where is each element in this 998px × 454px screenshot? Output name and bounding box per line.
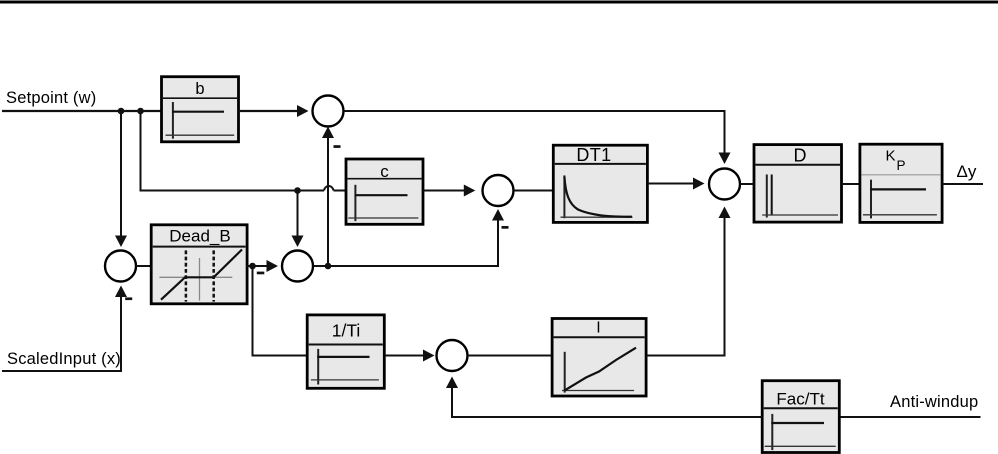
wire: Dead_B branch down to 1/Ti: [253, 266, 308, 356]
svg-text:b: b: [195, 80, 204, 98]
wire: scaled input up to S3 minus input: [2, 286, 132, 372]
top border: [0, 1, 998, 4]
wire: S2 output to DT1: [514, 190, 554, 192]
wire: S3 output to Dead_B: [136, 265, 151, 267]
wire: setpoint input: [2, 110, 163, 112]
svg-text:Setpoint (w): Setpoint (w): [6, 89, 96, 107]
summing junction S5: [437, 340, 468, 371]
summing junction S2: [483, 175, 514, 206]
wire: S6 output to block D: [740, 183, 754, 185]
svg-text:P: P: [897, 158, 906, 173]
summing junction S6: [709, 169, 740, 200]
node: error branch to S1: [325, 263, 332, 270]
node: setpoint branch 1: [118, 108, 125, 115]
wire: setpoint branch 2 down and across to block c (row 2): [141, 111, 347, 191]
wire: error feedback up to S1 minus input: [322, 127, 341, 267]
svg-text:Anti-windup: Anti-windup: [890, 393, 978, 411]
node: Dead_B output branch: [249, 263, 256, 270]
block I: [552, 319, 646, 397]
block Fac/Tt: [762, 381, 839, 453]
block DT1: [553, 145, 647, 222]
block Dead_B: [151, 225, 247, 304]
wire: setpoint branch down to summing junction S3: [115, 111, 127, 247]
wire: row-2 branch down into S4 top: [292, 191, 304, 248]
block 1/Ti: [307, 315, 384, 388]
svg-text:1/Ti: 1/Ti: [332, 321, 361, 341]
wire: anti-windup input (right segment): [840, 416, 981, 418]
block c: [346, 159, 423, 224]
node: setpoint branch 2: [137, 108, 144, 115]
svg-text:Dead_B: Dead_B: [169, 227, 230, 246]
svg-text:DT1: DT1: [576, 145, 611, 165]
svg-text:K: K: [886, 148, 896, 165]
block b: [162, 77, 239, 142]
wire: 1/Ti output to summing junction S5: [385, 350, 435, 362]
svg-text:Δy: Δy: [957, 162, 977, 181]
summing junction S1: [313, 96, 344, 127]
wire: S4 output across and up to S2 minus input: [314, 209, 509, 266]
wire: DT1 output to final summing junction S6: [648, 178, 705, 190]
svg-text:c: c: [380, 162, 389, 181]
svg-text:I: I: [596, 320, 600, 337]
wire: D output to block KP: [842, 183, 861, 185]
node: row-2 branch to S4: [294, 187, 301, 194]
wire: c output to summing junction S2: [423, 185, 475, 197]
wire: KP output (delta-y): [942, 183, 983, 185]
wire: S5 output to block I: [468, 355, 553, 357]
wire: I output up to S6 bottom input: [646, 207, 731, 356]
wire: Fac/Tt output left and up to S5 bottom input: [446, 377, 762, 418]
svg-text:Fac/Tt: Fac/Tt: [776, 390, 824, 409]
block KP: [860, 144, 942, 222]
block D: [754, 145, 842, 223]
summing junction S3: [105, 251, 136, 282]
wire: Dead_B output into S4 minus input: [247, 260, 279, 274]
wire: S1 output to final summing junction S6 (top path): [344, 111, 731, 164]
svg-text:ScaledInput (x): ScaledInput (x): [7, 350, 121, 368]
summing junction S4: [282, 251, 313, 282]
wire: b output to summing junction S1: [239, 105, 309, 117]
svg-text:D: D: [794, 146, 807, 166]
